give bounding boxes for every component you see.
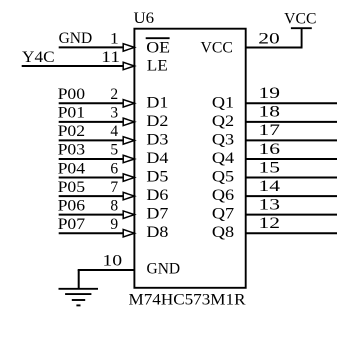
svg-text:P05: P05 — [58, 179, 86, 196]
pin name OE (pin 1) with overline — [146, 38, 170, 56]
power symbol VCC — [291, 28, 312, 47]
input arrow pin 9 — [123, 229, 134, 237]
svg-text:18: 18 — [259, 104, 281, 121]
input arrow pin 11 — [123, 62, 134, 70]
svg-text:20: 20 — [258, 31, 280, 48]
svg-text:Q3: Q3 — [212, 131, 235, 148]
svg-text:3: 3 — [110, 105, 118, 122]
wire pin 6 (P04 net to D5) — [59, 177, 124, 179]
wire pin 12 (Q8 output) — [246, 232, 337, 234]
svg-text:7: 7 — [110, 179, 118, 196]
svg-text:5: 5 — [110, 142, 118, 159]
svg-text:11: 11 — [101, 49, 120, 66]
svg-text:17: 17 — [259, 122, 281, 139]
input arrow pin 7 — [123, 192, 134, 200]
wire pin 7 (P05 net to D6) — [59, 195, 124, 197]
svg-text:LE: LE — [147, 58, 168, 75]
wire pin 3 (P01 net to D2) — [59, 121, 124, 123]
svg-text:Q7: Q7 — [212, 206, 235, 223]
svg-text:14: 14 — [259, 178, 281, 195]
svg-text:Q1: Q1 — [212, 94, 234, 111]
svg-text:P02: P02 — [58, 123, 86, 140]
svg-text:Q2: Q2 — [212, 113, 234, 130]
wire pin 15 (Q5 output) — [246, 177, 337, 179]
svg-text:U6: U6 — [134, 10, 155, 27]
svg-text:D5: D5 — [146, 169, 168, 186]
input arrow pin 4 — [123, 137, 134, 145]
svg-text:P07: P07 — [58, 216, 86, 233]
wire pin 14 (Q6 output) — [246, 195, 337, 197]
wire pin 19 (Q1 output) — [246, 102, 337, 104]
input arrow pin 8 — [123, 211, 134, 219]
wire pin 10 (GND) vertical drop — [78, 270, 80, 289]
IC U6 body — [134, 29, 245, 288]
svg-text:VCC: VCC — [284, 10, 316, 27]
svg-text:P03: P03 — [58, 142, 86, 159]
svg-text:13: 13 — [259, 196, 281, 213]
svg-text:Q8: Q8 — [212, 224, 235, 241]
svg-text:Q6: Q6 — [212, 187, 235, 204]
wire pin 11 (Y4C net to LE) — [22, 65, 124, 67]
wire pin 18 (Q2 output) — [246, 121, 337, 123]
wire pin 1 (GND net to OE) — [59, 46, 124, 48]
svg-text:P04: P04 — [58, 160, 86, 177]
svg-text:P01: P01 — [58, 105, 86, 122]
svg-text:D2: D2 — [146, 113, 168, 130]
ground symbol — [59, 289, 99, 306]
svg-text:4: 4 — [110, 123, 118, 140]
input arrow pin 5 — [123, 155, 134, 163]
svg-text:D4: D4 — [146, 150, 168, 167]
wire pin 20 (VCC) horizontal — [246, 47, 303, 49]
wire pin 8 (P06 net to D7) — [59, 214, 124, 216]
wire pin 13 (Q7 output) — [246, 214, 337, 216]
svg-text:19: 19 — [259, 85, 281, 102]
wire pin 9 (P07 net to D8) — [59, 232, 124, 234]
svg-text:P06: P06 — [58, 197, 86, 214]
svg-text:6: 6 — [110, 160, 118, 177]
svg-text:9: 9 — [110, 216, 118, 233]
svg-text:GND: GND — [59, 30, 93, 47]
svg-text:GND: GND — [147, 261, 181, 278]
svg-text:D3: D3 — [146, 131, 168, 148]
svg-text:VCC: VCC — [201, 40, 233, 57]
svg-text:OE: OE — [146, 40, 170, 57]
svg-text:Q5: Q5 — [212, 169, 235, 186]
svg-text:Q4: Q4 — [212, 150, 235, 167]
svg-text:8: 8 — [110, 197, 118, 214]
wire pin 5 (P03 net to D4) — [59, 158, 124, 160]
svg-text:P00: P00 — [58, 86, 86, 103]
svg-text:12: 12 — [259, 215, 281, 232]
wire pin 2 (P00 net to D1) — [59, 102, 124, 104]
svg-text:M74HC573M1R: M74HC573M1R — [129, 292, 247, 309]
wire pin 10 (GND) horizontal — [78, 269, 135, 271]
input arrow pin 6 — [123, 174, 134, 182]
svg-text:D1: D1 — [146, 94, 168, 111]
svg-text:D6: D6 — [146, 187, 168, 204]
svg-text:Y4C: Y4C — [22, 49, 55, 66]
svg-text:2: 2 — [110, 86, 118, 103]
svg-text:1: 1 — [110, 30, 119, 47]
svg-text:16: 16 — [259, 141, 281, 158]
wire pin 16 (Q4 output) — [246, 158, 337, 160]
wire pin 4 (P02 net to D3) — [59, 139, 124, 141]
svg-text:D8: D8 — [146, 224, 168, 241]
input arrow pin 1 — [123, 44, 134, 52]
svg-text:D7: D7 — [146, 206, 168, 223]
svg-text:10: 10 — [102, 253, 122, 270]
svg-text:15: 15 — [259, 159, 281, 176]
input arrow pin 3 — [123, 118, 134, 126]
input arrow pin 2 — [123, 100, 134, 108]
wire pin 17 (Q3 output) — [246, 139, 337, 141]
